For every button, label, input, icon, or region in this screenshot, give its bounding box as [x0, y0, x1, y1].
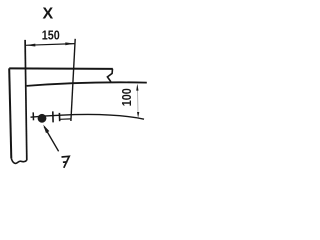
- beam break line (right end): [107, 69, 112, 82]
- svg-text:X: X: [42, 6, 53, 23]
- beam bottom edge: [27, 82, 147, 86]
- bolt end stub lower line: [60, 118, 71, 120]
- dimension line 100 (vertical, faint): [136, 86, 139, 114]
- arrowhead left of 150 dimension: [26, 44, 36, 47]
- dimension line 150: [25, 44, 75, 46]
- bolt nut tick: [58, 113, 60, 121]
- arrowhead top of 100 dimension: [136, 84, 138, 91]
- svg-text:150: 150: [42, 29, 60, 43]
- extension line right of 150: [71, 39, 75, 121]
- bolt left tick: [32, 112, 34, 120]
- bolt washer tick: [52, 111, 54, 122]
- bolt head dot (item 7): [38, 114, 47, 123]
- svg-text:100: 100: [119, 88, 134, 106]
- leader arrowhead: [43, 125, 49, 134]
- post left edge: [9, 68, 11, 158]
- item number 7: [62, 156, 70, 168]
- extension line left of 150 / post right edge: [25, 40, 27, 160]
- arrowhead right of 150 dimension: [65, 42, 75, 45]
- arrowhead bottom of 100 dimension: [137, 112, 139, 118]
- leader line to item 7: [44, 127, 58, 152]
- post break line (bottom end): [11, 158, 26, 163]
- beam top edge: [9, 67, 113, 70]
- bolt axis line: [31, 114, 145, 119]
